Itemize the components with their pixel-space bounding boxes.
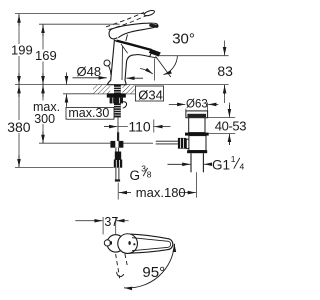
- svg-text:max.180: max.180: [136, 185, 186, 200]
- svg-text:max.30: max.30: [68, 106, 109, 120]
- svg-text:37: 37: [104, 215, 118, 229]
- svg-text:Ø63: Ø63: [186, 99, 208, 111]
- svg-text:Ø48: Ø48: [77, 64, 102, 79]
- svg-text:1: 1: [231, 154, 236, 164]
- svg-text:Ø34: Ø34: [138, 88, 163, 103]
- svg-text:83: 83: [217, 63, 233, 79]
- svg-text:169: 169: [35, 48, 57, 63]
- svg-text:110: 110: [128, 118, 151, 134]
- svg-text:95°: 95°: [142, 264, 165, 281]
- svg-text:300: 300: [34, 112, 55, 126]
- svg-text:8: 8: [147, 169, 152, 179]
- svg-text:4: 4: [240, 162, 245, 172]
- svg-text:30°: 30°: [172, 31, 195, 48]
- svg-text:199: 199: [11, 43, 33, 58]
- svg-text:40-53: 40-53: [215, 118, 246, 133]
- svg-text:380: 380: [7, 119, 31, 135]
- svg-text:G1: G1: [212, 158, 230, 173]
- svg-text:G: G: [130, 168, 141, 183]
